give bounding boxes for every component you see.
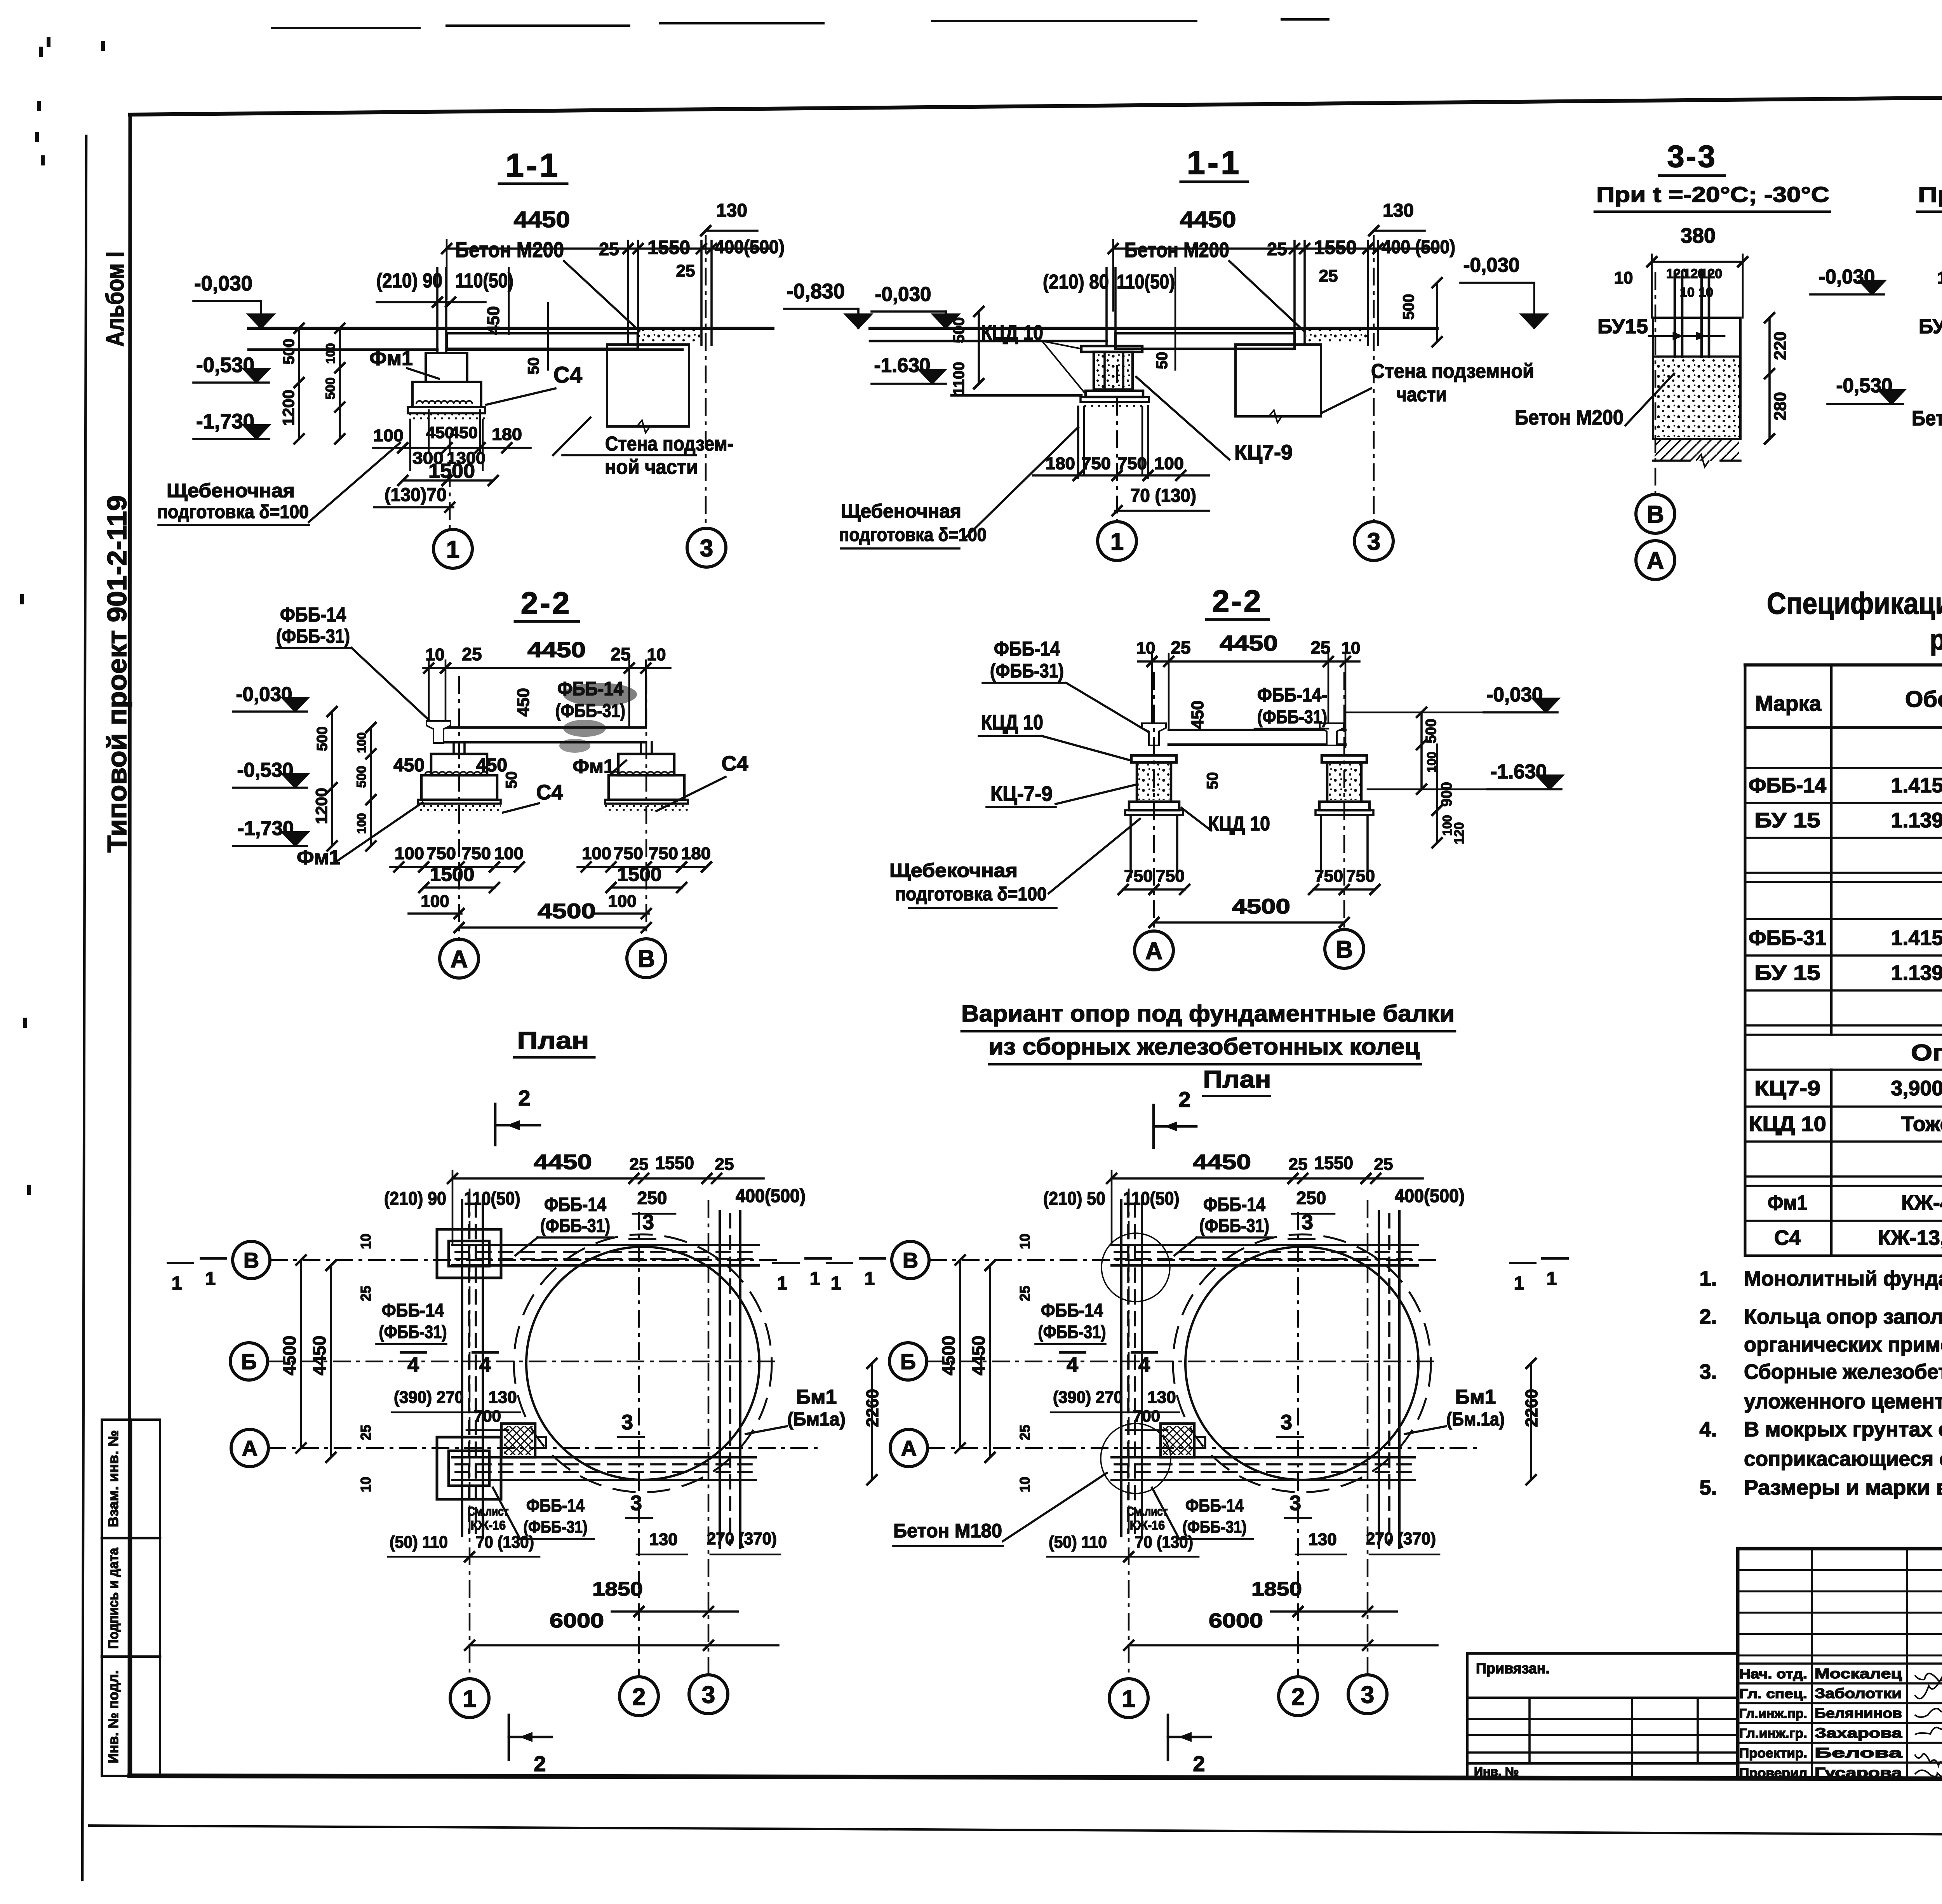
- svg-text:ФББ-14: ФББ-14: [526, 1495, 585, 1516]
- svg-text:В мокрых грунтах опоры из коле: В мокрых грунтах опоры из колец под фунд…: [1744, 1418, 1942, 1441]
- svg-text:(Бм1а): (Бм1а): [787, 1409, 846, 1430]
- svg-text:3,900-3: 3,900-3: [1891, 1077, 1942, 1100]
- svg-text:Спецификация элементов к марки: Спецификация элементов к маркировочным с…: [1767, 586, 1942, 620]
- svg-text:А: А: [901, 1436, 917, 1460]
- svg-text:4: 4: [1067, 1353, 1078, 1377]
- svg-text:1.: 1.: [1699, 1267, 1717, 1290]
- svg-text:(ФББ-31): (ФББ-31): [276, 625, 350, 647]
- svg-text:4450: 4450: [514, 207, 570, 232]
- svg-text:110(50): 110(50): [1117, 271, 1175, 293]
- svg-text:100: 100: [355, 732, 369, 753]
- svg-text:-0,030: -0,030: [236, 683, 292, 706]
- svg-text:100: 100: [421, 892, 449, 911]
- svg-text:2: 2: [632, 1683, 646, 1710]
- svg-text:25: 25: [1017, 1286, 1033, 1301]
- svg-text:КЖ-13, 14: КЖ-13, 14: [1878, 1226, 1942, 1250]
- svg-text:500: 500: [1400, 294, 1417, 320]
- svg-text:25: 25: [1319, 266, 1338, 285]
- svg-text:А: А: [1145, 938, 1163, 964]
- svg-text:Фм1: Фм1: [369, 347, 413, 370]
- svg-text:2: 2: [1291, 1683, 1305, 1710]
- svg-text:2: 2: [534, 1751, 546, 1776]
- svg-text:1: 1: [810, 1269, 820, 1289]
- svg-text:Щебеночная: Щебеночная: [167, 480, 295, 501]
- svg-text:1: 1: [1547, 1269, 1557, 1289]
- svg-text:-0,030: -0,030: [1487, 684, 1543, 706]
- svg-text:100: 100: [355, 813, 369, 834]
- svg-text:25: 25: [1017, 1425, 1033, 1440]
- svg-text:450: 450: [1188, 700, 1207, 729]
- svg-text:В: В: [1647, 501, 1664, 528]
- svg-text:Вариант опор под фундаментные: Вариант опор под фундаментные балки: [961, 1001, 1455, 1027]
- svg-text:3: 3: [642, 1211, 654, 1234]
- svg-text:А: А: [1647, 547, 1664, 574]
- svg-text:ФББ-14: ФББ-14: [280, 604, 346, 626]
- svg-text:2: 2: [518, 1086, 530, 1110]
- svg-text:1: 1: [172, 1273, 182, 1294]
- svg-text:органических примесей.: органических примесей.: [1744, 1333, 1942, 1356]
- svg-text:500: 500: [323, 378, 338, 400]
- svg-text:Бм1: Бм1: [796, 1386, 837, 1408]
- svg-text:3: 3: [1361, 1681, 1374, 1708]
- svg-text:С4: С4: [1774, 1226, 1801, 1250]
- svg-text:10: 10: [1614, 268, 1633, 287]
- svg-text:5.: 5.: [1699, 1476, 1717, 1499]
- svg-text:Тоже: Тоже: [1901, 1112, 1942, 1136]
- svg-text:180: 180: [1046, 454, 1075, 473]
- svg-text:130: 130: [1308, 1530, 1336, 1549]
- svg-text:БУ15.: БУ15.: [1919, 315, 1942, 338]
- svg-text:План: План: [1203, 1066, 1271, 1093]
- svg-text:Заболотки: Заболотки: [1815, 1685, 1902, 1701]
- svg-text:10: 10: [1937, 268, 1942, 287]
- svg-text:-0,530: -0,530: [237, 759, 294, 781]
- svg-text:(50) 110: (50) 110: [1049, 1533, 1107, 1552]
- svg-text:-0,030: -0,030: [194, 272, 252, 295]
- svg-text:110(50): 110(50): [1123, 1189, 1180, 1209]
- svg-text:25: 25: [1171, 637, 1190, 658]
- svg-text:-0,030: -0,030: [875, 283, 931, 306]
- svg-text:3: 3: [1302, 1211, 1313, 1234]
- svg-text:подготовка δ=100: подготовка δ=100: [895, 884, 1047, 905]
- svg-text:Белова: Белова: [1815, 1745, 1903, 1761]
- svg-text:Бетон М180: Бетон М180: [893, 1520, 1002, 1542]
- svg-text:В: В: [903, 1248, 918, 1272]
- svg-text:1: 1: [463, 1685, 476, 1712]
- svg-text:450: 450: [476, 755, 507, 776]
- svg-text:2-2: 2-2: [521, 586, 572, 620]
- svg-text:части: части: [1396, 383, 1447, 406]
- svg-text:25: 25: [358, 1425, 374, 1440]
- svg-text:1.415-1: 1.415-1: [1891, 774, 1942, 797]
- svg-text:1: 1: [777, 1273, 788, 1294]
- svg-text:ФББ-14: ФББ-14: [382, 1300, 444, 1321]
- svg-text:400(500): 400(500): [736, 1186, 806, 1206]
- svg-text:ФББ-14: ФББ-14: [544, 1194, 606, 1215]
- svg-text:(210) 90: (210) 90: [384, 1189, 446, 1209]
- svg-text:130: 130: [716, 200, 747, 221]
- svg-text:1500: 1500: [430, 863, 475, 885]
- svg-text:При t =-20°C; -30°C: При t =-20°C; -30°C: [1596, 182, 1829, 207]
- svg-text:2.: 2.: [1699, 1305, 1717, 1328]
- svg-text:1550: 1550: [655, 1153, 694, 1173]
- svg-text:380: 380: [1681, 224, 1716, 247]
- svg-text:500: 500: [354, 766, 369, 788]
- svg-text:3: 3: [630, 1492, 642, 1515]
- svg-text:1.415-1: 1.415-1: [1891, 926, 1942, 950]
- svg-text:10: 10: [1017, 1234, 1033, 1249]
- svg-text:1: 1: [205, 1269, 216, 1289]
- svg-text:БУ15: БУ15: [1597, 315, 1648, 338]
- svg-text:2260: 2260: [863, 1389, 882, 1427]
- svg-text:2260: 2260: [1522, 1389, 1541, 1427]
- svg-text:Стена подзем-: Стена подзем-: [605, 433, 733, 455]
- svg-text:10: 10: [1017, 1477, 1033, 1492]
- svg-text:750: 750: [1081, 454, 1111, 473]
- svg-text:4500: 4500: [938, 1336, 959, 1375]
- svg-text:6000: 6000: [550, 1610, 604, 1632]
- svg-text:450: 450: [450, 423, 478, 442]
- svg-text:100: 100: [1154, 454, 1184, 473]
- svg-text:1: 1: [831, 1273, 841, 1294]
- svg-text:25: 25: [1267, 239, 1287, 259]
- svg-text:100: 100: [395, 844, 424, 863]
- svg-text:1100: 1100: [950, 362, 968, 396]
- svg-text:(Бм.1а): (Бм.1а): [1446, 1409, 1505, 1430]
- svg-text:1550: 1550: [1314, 1153, 1353, 1173]
- svg-text:БУ 15: БУ 15: [1754, 961, 1820, 985]
- svg-text:500: 500: [314, 726, 331, 751]
- svg-text:КЖ-16: КЖ-16: [471, 1518, 506, 1532]
- svg-text:Фм1: Фм1: [1768, 1191, 1807, 1215]
- svg-text:1: 1: [865, 1269, 875, 1289]
- svg-text:750: 750: [614, 844, 643, 863]
- svg-text:Щебеночная: Щебеночная: [841, 500, 961, 522]
- svg-text:130: 130: [488, 1388, 517, 1407]
- svg-text:3.: 3.: [1699, 1360, 1717, 1384]
- svg-text:Гл.инж.гр.: Гл.инж.гр.: [1739, 1726, 1807, 1741]
- svg-text:(130)70: (130)70: [385, 485, 447, 505]
- svg-text:25: 25: [611, 644, 630, 664]
- svg-text:180: 180: [492, 425, 522, 444]
- svg-text:4450: 4450: [534, 1150, 592, 1174]
- svg-text:120: 120: [1452, 822, 1467, 844]
- svg-text:4450: 4450: [1180, 207, 1236, 232]
- svg-text:1: 1: [1110, 528, 1124, 555]
- svg-text:750: 750: [1314, 867, 1343, 886]
- svg-text:4450: 4450: [1193, 1150, 1251, 1174]
- svg-text:3: 3: [702, 1681, 715, 1708]
- svg-text:1-1: 1-1: [506, 147, 560, 184]
- svg-text:100: 100: [494, 844, 524, 863]
- svg-text:3: 3: [700, 535, 713, 562]
- svg-text:10: 10: [1698, 285, 1713, 300]
- svg-text:500: 500: [950, 317, 968, 343]
- svg-text:КЖ-4: КЖ-4: [1901, 1191, 1942, 1215]
- svg-text:130: 130: [1383, 200, 1414, 221]
- svg-text:50: 50: [1204, 772, 1221, 790]
- svg-text:Инв. № подл.: Инв. № подл.: [105, 1670, 121, 1763]
- svg-text:4450: 4450: [309, 1336, 329, 1375]
- svg-text:План: План: [517, 1027, 589, 1054]
- svg-text:4500: 4500: [538, 900, 596, 923]
- svg-text:4450: 4450: [1220, 631, 1278, 655]
- svg-text:25: 25: [462, 644, 482, 664]
- svg-text:750: 750: [1117, 454, 1147, 473]
- svg-text:1500: 1500: [617, 863, 662, 885]
- svg-text:4: 4: [1138, 1353, 1150, 1377]
- svg-text:КЦД 10: КЦД 10: [1749, 1112, 1826, 1136]
- svg-text:4: 4: [407, 1353, 419, 1377]
- svg-text:ФББ-31: ФББ-31: [1749, 926, 1826, 950]
- svg-text:1500: 1500: [428, 460, 475, 482]
- svg-text:Размеры и марки в скобках для: Размеры и марки в скобках для температур…: [1744, 1476, 1942, 1499]
- svg-text:1-1: 1-1: [1187, 144, 1242, 181]
- svg-text:уложенного цементного раствора: уложенного цементного раствора М100.: [1744, 1390, 1942, 1413]
- svg-text:(ФББ-31): (ФББ-31): [379, 1322, 447, 1342]
- svg-text:Гусарова: Гусарова: [1815, 1765, 1902, 1780]
- svg-text:(390) 270: (390) 270: [394, 1388, 464, 1407]
- svg-text:КЦД 10: КЦД 10: [1208, 813, 1270, 835]
- svg-text:Белянинов: Белянинов: [1815, 1705, 1902, 1721]
- svg-text:25: 25: [599, 239, 619, 259]
- svg-text:Москалец: Москалец: [1815, 1666, 1902, 1681]
- svg-text:соприкасающиеся с грунтом, обм: соприкасающиеся с грунтом, обмазываются …: [1744, 1447, 1942, 1471]
- svg-text:50: 50: [525, 357, 542, 375]
- svg-text:(ФББ-31): (ФББ-31): [540, 1216, 610, 1236]
- svg-text:25: 25: [715, 1155, 734, 1174]
- svg-text:250: 250: [1296, 1188, 1326, 1208]
- svg-text:400 (500): 400 (500): [1382, 237, 1455, 258]
- svg-text:(50) 110: (50) 110: [390, 1533, 448, 1552]
- svg-text:Б: Б: [900, 1349, 916, 1374]
- svg-text:Подпись и дата: Подпись и дата: [105, 1547, 121, 1649]
- svg-text:-0,030: -0,030: [1463, 254, 1520, 277]
- svg-text:Гл.инж.пр.: Гл.инж.пр.: [1739, 1706, 1807, 1721]
- svg-text:КЦ-7-9: КЦ-7-9: [990, 782, 1053, 806]
- svg-text:ФББ-14: ФББ-14: [1185, 1495, 1244, 1516]
- svg-text:70 (130): 70 (130): [476, 1533, 534, 1552]
- svg-text:500: 500: [1423, 719, 1439, 743]
- svg-text:4: 4: [479, 1353, 491, 1377]
- svg-text:180: 180: [681, 844, 711, 863]
- svg-text:900: 900: [1439, 782, 1455, 806]
- svg-text:4450: 4450: [527, 637, 586, 662]
- svg-text:(ФББ-31): (ФББ-31): [1257, 707, 1327, 727]
- svg-text:10: 10: [358, 1234, 374, 1249]
- svg-text:700: 700: [1133, 1407, 1160, 1425]
- svg-text:750: 750: [426, 844, 456, 863]
- svg-text:КЦД 10: КЦД 10: [981, 321, 1043, 345]
- svg-text:(210) 80: (210) 80: [1043, 271, 1109, 293]
- svg-text:Фм1: Фм1: [573, 755, 614, 777]
- svg-text:подготовка δ=100: подготовка δ=100: [157, 502, 309, 522]
- svg-text:1.139-1: 1.139-1: [1891, 809, 1942, 832]
- svg-text:25: 25: [630, 1155, 649, 1174]
- svg-text:130: 130: [1147, 1388, 1176, 1407]
- svg-text:70 (130): 70 (130): [1130, 486, 1196, 506]
- svg-text:Сборные железобетонные элемент: Сборные железобетонные элементы укладыва…: [1744, 1360, 1942, 1384]
- svg-text:1850: 1850: [1251, 1578, 1302, 1600]
- svg-text:Бм1: Бм1: [1455, 1386, 1496, 1408]
- svg-text:Стена подземной: Стена подземной: [1371, 360, 1534, 383]
- svg-text:750: 750: [649, 844, 678, 863]
- svg-text:1550: 1550: [1314, 237, 1357, 258]
- svg-text:450: 450: [393, 755, 425, 776]
- svg-text:3: 3: [621, 1411, 633, 1434]
- svg-text:В: В: [244, 1248, 259, 1272]
- svg-text:100: 100: [582, 844, 611, 863]
- svg-text:100: 100: [324, 343, 338, 364]
- svg-text:1200: 1200: [312, 788, 331, 824]
- svg-text:250: 250: [637, 1188, 667, 1208]
- svg-text:-0,830: -0,830: [787, 280, 845, 303]
- svg-text:При t = -40°C: При t = -40°C: [1918, 182, 1942, 207]
- svg-text:КЦ7-9: КЦ7-9: [1234, 441, 1293, 464]
- svg-text:750: 750: [461, 844, 491, 863]
- svg-text:ФББ-14: ФББ-14: [994, 638, 1060, 660]
- svg-text:В: В: [1336, 936, 1353, 963]
- svg-text:25: 25: [1289, 1155, 1308, 1174]
- svg-text:2: 2: [1193, 1751, 1205, 1776]
- svg-text:Бетон М200: Бетон М200: [455, 237, 564, 262]
- svg-text:А: А: [242, 1436, 258, 1460]
- svg-text:-1.630: -1.630: [1491, 761, 1547, 783]
- svg-text:10: 10: [1342, 639, 1361, 658]
- svg-text:Опоры под фундаментные балки: Опоры под фундаментные балки: [1911, 1040, 1942, 1065]
- svg-text:700: 700: [474, 1407, 501, 1425]
- svg-text:70 (130): 70 (130): [1135, 1533, 1193, 1552]
- svg-text:3: 3: [1289, 1492, 1301, 1515]
- svg-text:Обозначение: Обозначение: [1905, 687, 1942, 712]
- svg-text:(ФББ-31): (ФББ-31): [1199, 1216, 1269, 1236]
- svg-text:(390) 270: (390) 270: [1053, 1388, 1123, 1407]
- svg-text:25: 25: [676, 261, 695, 280]
- svg-text:ФББ-14: ФББ-14: [1203, 1194, 1265, 1215]
- svg-text:2-2: 2-2: [1212, 584, 1263, 618]
- svg-text:500: 500: [280, 339, 298, 365]
- svg-text:4500: 4500: [1232, 895, 1290, 918]
- svg-text:Марка: Марка: [1755, 691, 1822, 715]
- svg-text:Гл. спец.: Гл. спец.: [1739, 1686, 1807, 1701]
- svg-text:280: 280: [1771, 392, 1790, 420]
- svg-text:3: 3: [1281, 1411, 1292, 1434]
- svg-text:Монолитный фундамент Фм1 выпол: Монолитный фундамент Фм1 выполняется из …: [1744, 1267, 1942, 1290]
- svg-text:1: 1: [1122, 1685, 1135, 1712]
- svg-text:1200: 1200: [279, 390, 298, 426]
- svg-text:Альбом I: Альбом I: [101, 252, 129, 347]
- svg-text:Б: Б: [241, 1349, 257, 1374]
- svg-text:Привязан.: Привязан.: [1476, 1660, 1550, 1677]
- svg-text:100: 100: [608, 892, 636, 911]
- svg-text:С4: С4: [553, 362, 582, 388]
- svg-text:(210) 50: (210) 50: [1043, 1189, 1105, 1209]
- svg-text:4450: 4450: [968, 1336, 988, 1375]
- svg-text:Захарова: Захарова: [1815, 1725, 1902, 1741]
- svg-text:450: 450: [484, 306, 503, 334]
- svg-text:25: 25: [358, 1286, 374, 1301]
- svg-text:С4: С4: [721, 752, 748, 775]
- svg-text:750: 750: [1156, 867, 1185, 886]
- svg-text:БУ 15: БУ 15: [1754, 809, 1820, 832]
- svg-text:270 (370): 270 (370): [1366, 1529, 1436, 1548]
- svg-text:100: 100: [373, 426, 404, 445]
- svg-text:Типовой проект 901-2-119: Типовой проект 901-2-119: [102, 495, 132, 853]
- svg-text:220: 220: [1771, 331, 1790, 360]
- svg-text:ФББ-14-: ФББ-14-: [1257, 684, 1327, 706]
- svg-text:С4: С4: [536, 781, 563, 804]
- svg-text:Инв. №: Инв. №: [1474, 1765, 1519, 1779]
- svg-text:25: 25: [1374, 1155, 1393, 1174]
- svg-text:Проектир.: Проектир.: [1739, 1746, 1807, 1761]
- svg-text:ФББ-14: ФББ-14: [1041, 1300, 1103, 1321]
- svg-text:1550: 1550: [647, 237, 690, 258]
- svg-text:Фм1: Фм1: [297, 846, 340, 869]
- svg-text:В: В: [638, 945, 655, 972]
- svg-text:(210) 90: (210) 90: [376, 270, 442, 292]
- svg-text:110(50): 110(50): [455, 270, 513, 292]
- svg-text:3-3: 3-3: [1667, 139, 1717, 174]
- svg-text:Кольца опор заполняются местны: Кольца опор заполняются местным талым гр…: [1744, 1305, 1942, 1328]
- svg-text:КЦД 10: КЦД 10: [981, 711, 1043, 734]
- svg-text:110(50): 110(50): [464, 1189, 520, 1209]
- svg-text:Проверил: Проверил: [1739, 1766, 1807, 1780]
- svg-text:130: 130: [649, 1530, 677, 1549]
- svg-text:расположенным на листе.: расположенным на листе.: [1930, 623, 1942, 656]
- svg-text:Взам. инв. №: Взам. инв. №: [105, 1430, 121, 1527]
- svg-text:4.: 4.: [1699, 1418, 1717, 1441]
- svg-text:3: 3: [1367, 528, 1380, 555]
- svg-text:10: 10: [358, 1477, 374, 1492]
- svg-text:1.139-1: 1.139-1: [1891, 961, 1942, 985]
- svg-text:ФББ-14: ФББ-14: [1749, 774, 1826, 797]
- svg-text:подготовка δ=100: подготовка δ=100: [839, 525, 987, 545]
- svg-text:6000: 6000: [1209, 1610, 1263, 1632]
- svg-text:ной части: ной части: [605, 456, 698, 479]
- svg-text:400(500): 400(500): [1395, 1186, 1465, 1206]
- svg-text:120: 120: [1700, 266, 1722, 281]
- svg-text:КЦ7-9: КЦ7-9: [1754, 1077, 1820, 1100]
- svg-text:Щебекочная: Щебекочная: [889, 860, 1018, 881]
- svg-text:Бетон М200: Бетон М200: [1912, 407, 1942, 430]
- svg-text:Бетон М200: Бетон М200: [1515, 406, 1624, 429]
- svg-text:1: 1: [1514, 1273, 1524, 1294]
- svg-text:10: 10: [647, 645, 666, 664]
- svg-text:1: 1: [446, 536, 459, 563]
- svg-text:А: А: [451, 946, 468, 973]
- svg-text:Бетон М200: Бетон М200: [1124, 238, 1229, 262]
- svg-text:Нач. отд.: Нач. отд.: [1739, 1667, 1807, 1681]
- svg-text:270 (370): 270 (370): [707, 1529, 777, 1548]
- svg-text:10: 10: [1680, 285, 1695, 300]
- svg-text:-1,730: -1,730: [196, 410, 254, 433]
- svg-text:(ФББ-31): (ФББ-31): [990, 660, 1064, 682]
- svg-text:450: 450: [514, 688, 533, 716]
- svg-text:2: 2: [1178, 1087, 1190, 1112]
- svg-text:750: 750: [1346, 867, 1375, 886]
- svg-text:КЖ-16: КЖ-16: [1130, 1518, 1165, 1532]
- svg-text:1850: 1850: [592, 1578, 643, 1600]
- svg-text:из сборных железобетонных коле: из сборных железобетонных колец: [988, 1034, 1420, 1060]
- svg-text:4500: 4500: [279, 1336, 299, 1375]
- svg-text:750: 750: [1124, 867, 1153, 886]
- svg-text:400(500): 400(500): [715, 237, 785, 258]
- svg-text:-0,530: -0,530: [196, 353, 254, 377]
- svg-text:50: 50: [1154, 352, 1171, 369]
- svg-text:(ФББ-31): (ФББ-31): [1038, 1322, 1106, 1342]
